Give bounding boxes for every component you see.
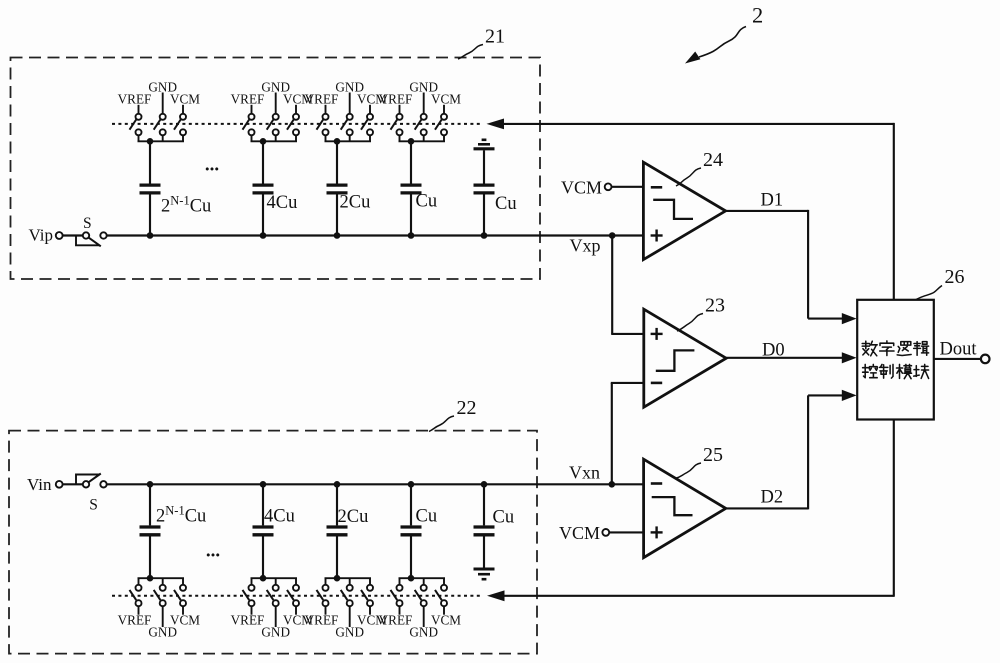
switch GND (bottom group 1) xyxy=(162,578,164,584)
svg-text:VREF: VREF xyxy=(379,91,413,106)
svg-text:VCM: VCM xyxy=(431,91,461,106)
svg-text:S: S xyxy=(83,215,92,232)
switch GND (top group 2) xyxy=(275,93,277,114)
wire: Vxn rail to dummy capacitor Cu (bottom) xyxy=(483,484,485,525)
svg-text:Vip: Vip xyxy=(29,226,53,245)
svg-text:S: S xyxy=(89,497,98,514)
svg-text:Cu: Cu xyxy=(416,507,438,527)
arrowhead into block 21 xyxy=(487,119,505,130)
junction on Vxp rail at 2Cu xyxy=(334,232,341,239)
svg-text:D2: D2 xyxy=(761,488,784,508)
capacitor Cu (top array) xyxy=(401,183,422,186)
switch triple (VREF/GND/VCM) for bottom capacitor Cu xyxy=(399,577,446,579)
svg-text:VREF: VREF xyxy=(118,612,152,627)
text glyph "制" xyxy=(879,364,893,378)
svg-text:24: 24 xyxy=(703,149,723,171)
junction on Vxp rail at Cu xyxy=(408,232,415,239)
flipped ground symbol above dummy Cu (top) xyxy=(482,139,487,142)
switch VREF (bottom group 2) xyxy=(251,578,253,584)
leader curve for 23 xyxy=(677,314,703,332)
capacitor 2Cu (bottom array) xyxy=(327,525,348,528)
switch VREF (bottom group 1) xyxy=(138,578,140,584)
switch VCM (bottom group 4) xyxy=(443,578,445,584)
wire: junction to capacitor 4Cu (top) xyxy=(262,141,264,183)
junction bus joining switch triple to top plate (top group 2) xyxy=(251,135,253,141)
svg-text:4Cu: 4Cu xyxy=(267,193,298,213)
svg-text:23: 23 xyxy=(705,295,725,317)
svg-text:VREF: VREF xyxy=(379,612,413,627)
comparator 24 plus sign xyxy=(651,234,663,236)
text glyph "块" xyxy=(914,364,929,378)
node Vxn xyxy=(609,481,616,488)
capacitor 2Cu (top array) xyxy=(327,183,348,186)
comparator 25 minus sign xyxy=(651,482,662,485)
junction on Vxn rail at 4Cu xyxy=(260,481,267,488)
leader curve for 26 xyxy=(916,286,942,300)
switch VREF (top group 3) xyxy=(325,105,327,114)
svg-text:22: 22 xyxy=(457,397,477,419)
leader curve for 21 xyxy=(458,45,483,60)
svg-text:Dout: Dout xyxy=(940,340,978,360)
svg-text:26: 26 xyxy=(945,266,965,288)
svg-text:Vxp: Vxp xyxy=(570,236,601,256)
svg-text:Cu: Cu xyxy=(416,192,438,212)
svg-text:21: 21 xyxy=(485,26,505,48)
svg-text:2Cu: 2Cu xyxy=(338,507,369,527)
junction on Vxn rail at Cu xyxy=(408,481,415,488)
wire: D0 output of comparator 23 xyxy=(726,357,843,359)
digital logic control block U26 xyxy=(857,300,934,420)
junction on Vxp rail at dummy Cu xyxy=(481,232,488,239)
capacitor 2^(N-1)Cu (bottom array) xyxy=(140,525,161,528)
wire: Vxn to comparator 23 - input xyxy=(611,383,613,484)
junction bus joining switch triple to top plate (top group 1) xyxy=(138,135,140,141)
text glyph "逻" xyxy=(897,342,911,356)
svg-text:Cu: Cu xyxy=(495,194,517,214)
wire: junction to capacitor 2Cu (top) xyxy=(336,141,338,183)
wire: Vin rail to comparator 25 - input xyxy=(107,483,644,485)
switch VREF (top group 4) xyxy=(399,105,401,114)
dashed block 21 (positive capacitor DAC array) xyxy=(11,58,541,280)
switch GND (top group 1) xyxy=(162,93,164,114)
wire: dummy capacitor to ground (bottom) xyxy=(483,536,485,567)
svg-text:VCM: VCM xyxy=(431,612,461,627)
comparator 23 minus sign xyxy=(651,382,662,385)
junction on Vxp rail at 2^(N-1)Cu xyxy=(147,232,154,239)
svg-text:VCM: VCM xyxy=(170,91,200,106)
leader curve for 22 xyxy=(429,416,454,432)
control bus (dotted) into block 22 xyxy=(112,595,483,597)
wire: dummy capacitor to Vxp rail xyxy=(483,195,485,236)
svg-text:...: ... xyxy=(205,155,219,176)
svg-text:2Cu: 2Cu xyxy=(340,193,371,213)
capacitor 4Cu (top array) xyxy=(253,183,274,186)
wire: capacitor Cu to switch junction (bottom) xyxy=(410,536,412,578)
switch VCM (top group 2) xyxy=(295,105,297,114)
svg-text:...: ... xyxy=(206,541,220,562)
switch triple (VREF/GND/VCM) for bottom capacitor 2Cu xyxy=(325,577,372,579)
feedback wire from logic block to top switch bus xyxy=(503,123,894,125)
svg-text:VCM: VCM xyxy=(170,612,200,627)
text glyph "控" xyxy=(863,364,878,377)
comparator 24 minus sign xyxy=(651,186,662,189)
junction bus joining switch triple to top plate (top group 4) xyxy=(399,135,401,141)
svg-text:VCM: VCM xyxy=(561,177,602,197)
switch triple (VREF/GND/VCM) for bottom capacitor 4Cu xyxy=(251,577,298,579)
wire: capacitor 2^(N-1)Cu to switch junction (bottom) xyxy=(149,536,151,578)
svg-text:25: 25 xyxy=(703,444,723,466)
text glyph "字" xyxy=(880,341,894,356)
text glyph "数" xyxy=(862,341,877,356)
junction bus joining switch triple to top plate (top group 3) xyxy=(325,135,327,141)
switch VCM (top group 3) xyxy=(369,105,371,114)
switch VREF (bottom group 4) xyxy=(399,578,401,584)
svg-text:VREF: VREF xyxy=(118,91,152,106)
switch VCM (bottom group 3) xyxy=(369,578,371,584)
switch VCM (bottom group 1) xyxy=(182,578,184,584)
wire: junction to capacitor 2^(N-1)Cu (top) xyxy=(149,141,151,183)
switch VREF (bottom group 3) xyxy=(325,578,327,584)
comparator 23 plus sign xyxy=(651,333,663,335)
svg-text:VREF: VREF xyxy=(231,612,265,627)
switch VCM (bottom group 2) xyxy=(295,578,297,584)
node Vxp xyxy=(609,232,616,239)
svg-text:D1: D1 xyxy=(761,191,784,211)
wire: Vxn rail to capacitor 2^(N-1)Cu (bottom) xyxy=(149,484,151,525)
svg-text:Cu: Cu xyxy=(493,508,515,528)
control bus (dotted) into block 21 xyxy=(112,123,482,125)
arrowhead D0 into logic block xyxy=(842,352,857,363)
svg-text:VREF: VREF xyxy=(305,91,339,106)
svg-text:D0: D0 xyxy=(762,341,785,361)
comparator U24 (triangle) xyxy=(643,162,725,259)
feedback wire from logic block to bottom switch bus xyxy=(503,595,894,597)
switch GND (bottom group 2) xyxy=(275,578,277,584)
leader arrow for label 2 xyxy=(699,27,746,58)
wire: capacitor 2Cu to switch junction (bottom) xyxy=(336,536,338,578)
wire: capacitor Cu to Vxp rail xyxy=(410,195,412,236)
wire: D1 output of comparator 24 xyxy=(726,210,809,212)
svg-text:Vxn: Vxn xyxy=(569,463,600,483)
arrowhead D1 into logic block xyxy=(842,313,857,324)
capacitor 4Cu (bottom array) xyxy=(253,525,274,528)
sampling switch S (bottom) xyxy=(63,483,83,485)
capacitor 2^(N-1)Cu (top array) xyxy=(140,183,161,186)
switch VCM (top group 4) xyxy=(443,105,445,114)
capacitor Cu (bottom array) xyxy=(401,525,422,528)
switch GND (bottom group 4) xyxy=(423,578,425,584)
output terminal Dout xyxy=(981,355,990,364)
svg-text:4Cu: 4Cu xyxy=(264,507,295,527)
capacitor Cu dummy (bottom array) xyxy=(474,525,495,528)
svg-text:VREF: VREF xyxy=(305,612,339,627)
switch GND (bottom group 3) xyxy=(349,578,351,584)
switch triple (VREF/GND/VCM) for bottom capacitor 2^(N-1)Cu xyxy=(138,577,185,579)
switch VREF (top group 2) xyxy=(251,105,253,114)
comparator U23 (triangle) xyxy=(644,309,726,407)
arrowhead D2 into logic block xyxy=(842,390,857,401)
wire: capacitor 4Cu to Vxp rail xyxy=(262,195,264,236)
wire: D2 output of comparator 25 xyxy=(726,507,808,509)
svg-text:2: 2 xyxy=(752,3,763,28)
wire: ground to dummy capacitor Cu (top) xyxy=(483,150,485,183)
wire: Dout from logic block xyxy=(934,358,981,360)
switch GND (top group 3) xyxy=(349,93,351,114)
dashed block 22 (negative capacitor DAC array) xyxy=(9,431,537,654)
arrowhead into block 22 xyxy=(487,590,505,601)
wire: Vxn rail to capacitor 2Cu (bottom) xyxy=(336,484,338,525)
switch VCM (top group 1) xyxy=(182,105,184,114)
comparator U25 (triangle) xyxy=(644,459,726,557)
svg-text:VREF: VREF xyxy=(231,91,265,106)
ground symbol below dummy Cu (bottom) xyxy=(474,567,495,570)
svg-text:Vin: Vin xyxy=(27,475,52,494)
svg-text:VCM: VCM xyxy=(559,523,600,543)
text glyph "模" xyxy=(897,364,912,378)
wire: capacitor 2Cu to Vxp rail xyxy=(336,195,338,236)
comparator 25 plus sign xyxy=(651,531,663,533)
wire: Vip rail to comparator 24 + input xyxy=(107,234,644,236)
switch GND (top group 4) xyxy=(423,93,425,114)
wire: capacitor 2^(N-1)Cu to Vxp rail xyxy=(149,195,151,236)
junction on Vxn rail at 2Cu xyxy=(334,481,341,488)
leader curve for 25 xyxy=(675,463,701,479)
text glyph "辑" xyxy=(914,342,929,356)
leader curve for 24 xyxy=(676,168,701,186)
wire: junction to capacitor Cu (top) xyxy=(410,141,412,183)
wire: Vxn rail to capacitor 4Cu (bottom) xyxy=(262,484,264,525)
wire: Vxp to comparator 23 + input xyxy=(611,236,613,334)
sampling switch S (top) xyxy=(63,234,83,236)
junction on Vxn rail at 2^(N-1)Cu xyxy=(147,481,154,488)
comparator 23 hysteresis symbol xyxy=(656,350,695,370)
wire: capacitor 4Cu to switch junction (bottom) xyxy=(262,536,264,578)
wire: Vxn rail to capacitor Cu (bottom) xyxy=(410,484,412,525)
comparator 25 hysteresis symbol xyxy=(652,497,693,515)
junction on Vxn rail at dummy Cu xyxy=(481,481,488,488)
junction on Vxp rail at 4Cu xyxy=(260,232,267,239)
switch VREF (top group 1) xyxy=(138,105,140,114)
capacitor Cu dummy (top array) xyxy=(474,183,495,186)
comparator 24 hysteresis symbol xyxy=(653,200,693,219)
